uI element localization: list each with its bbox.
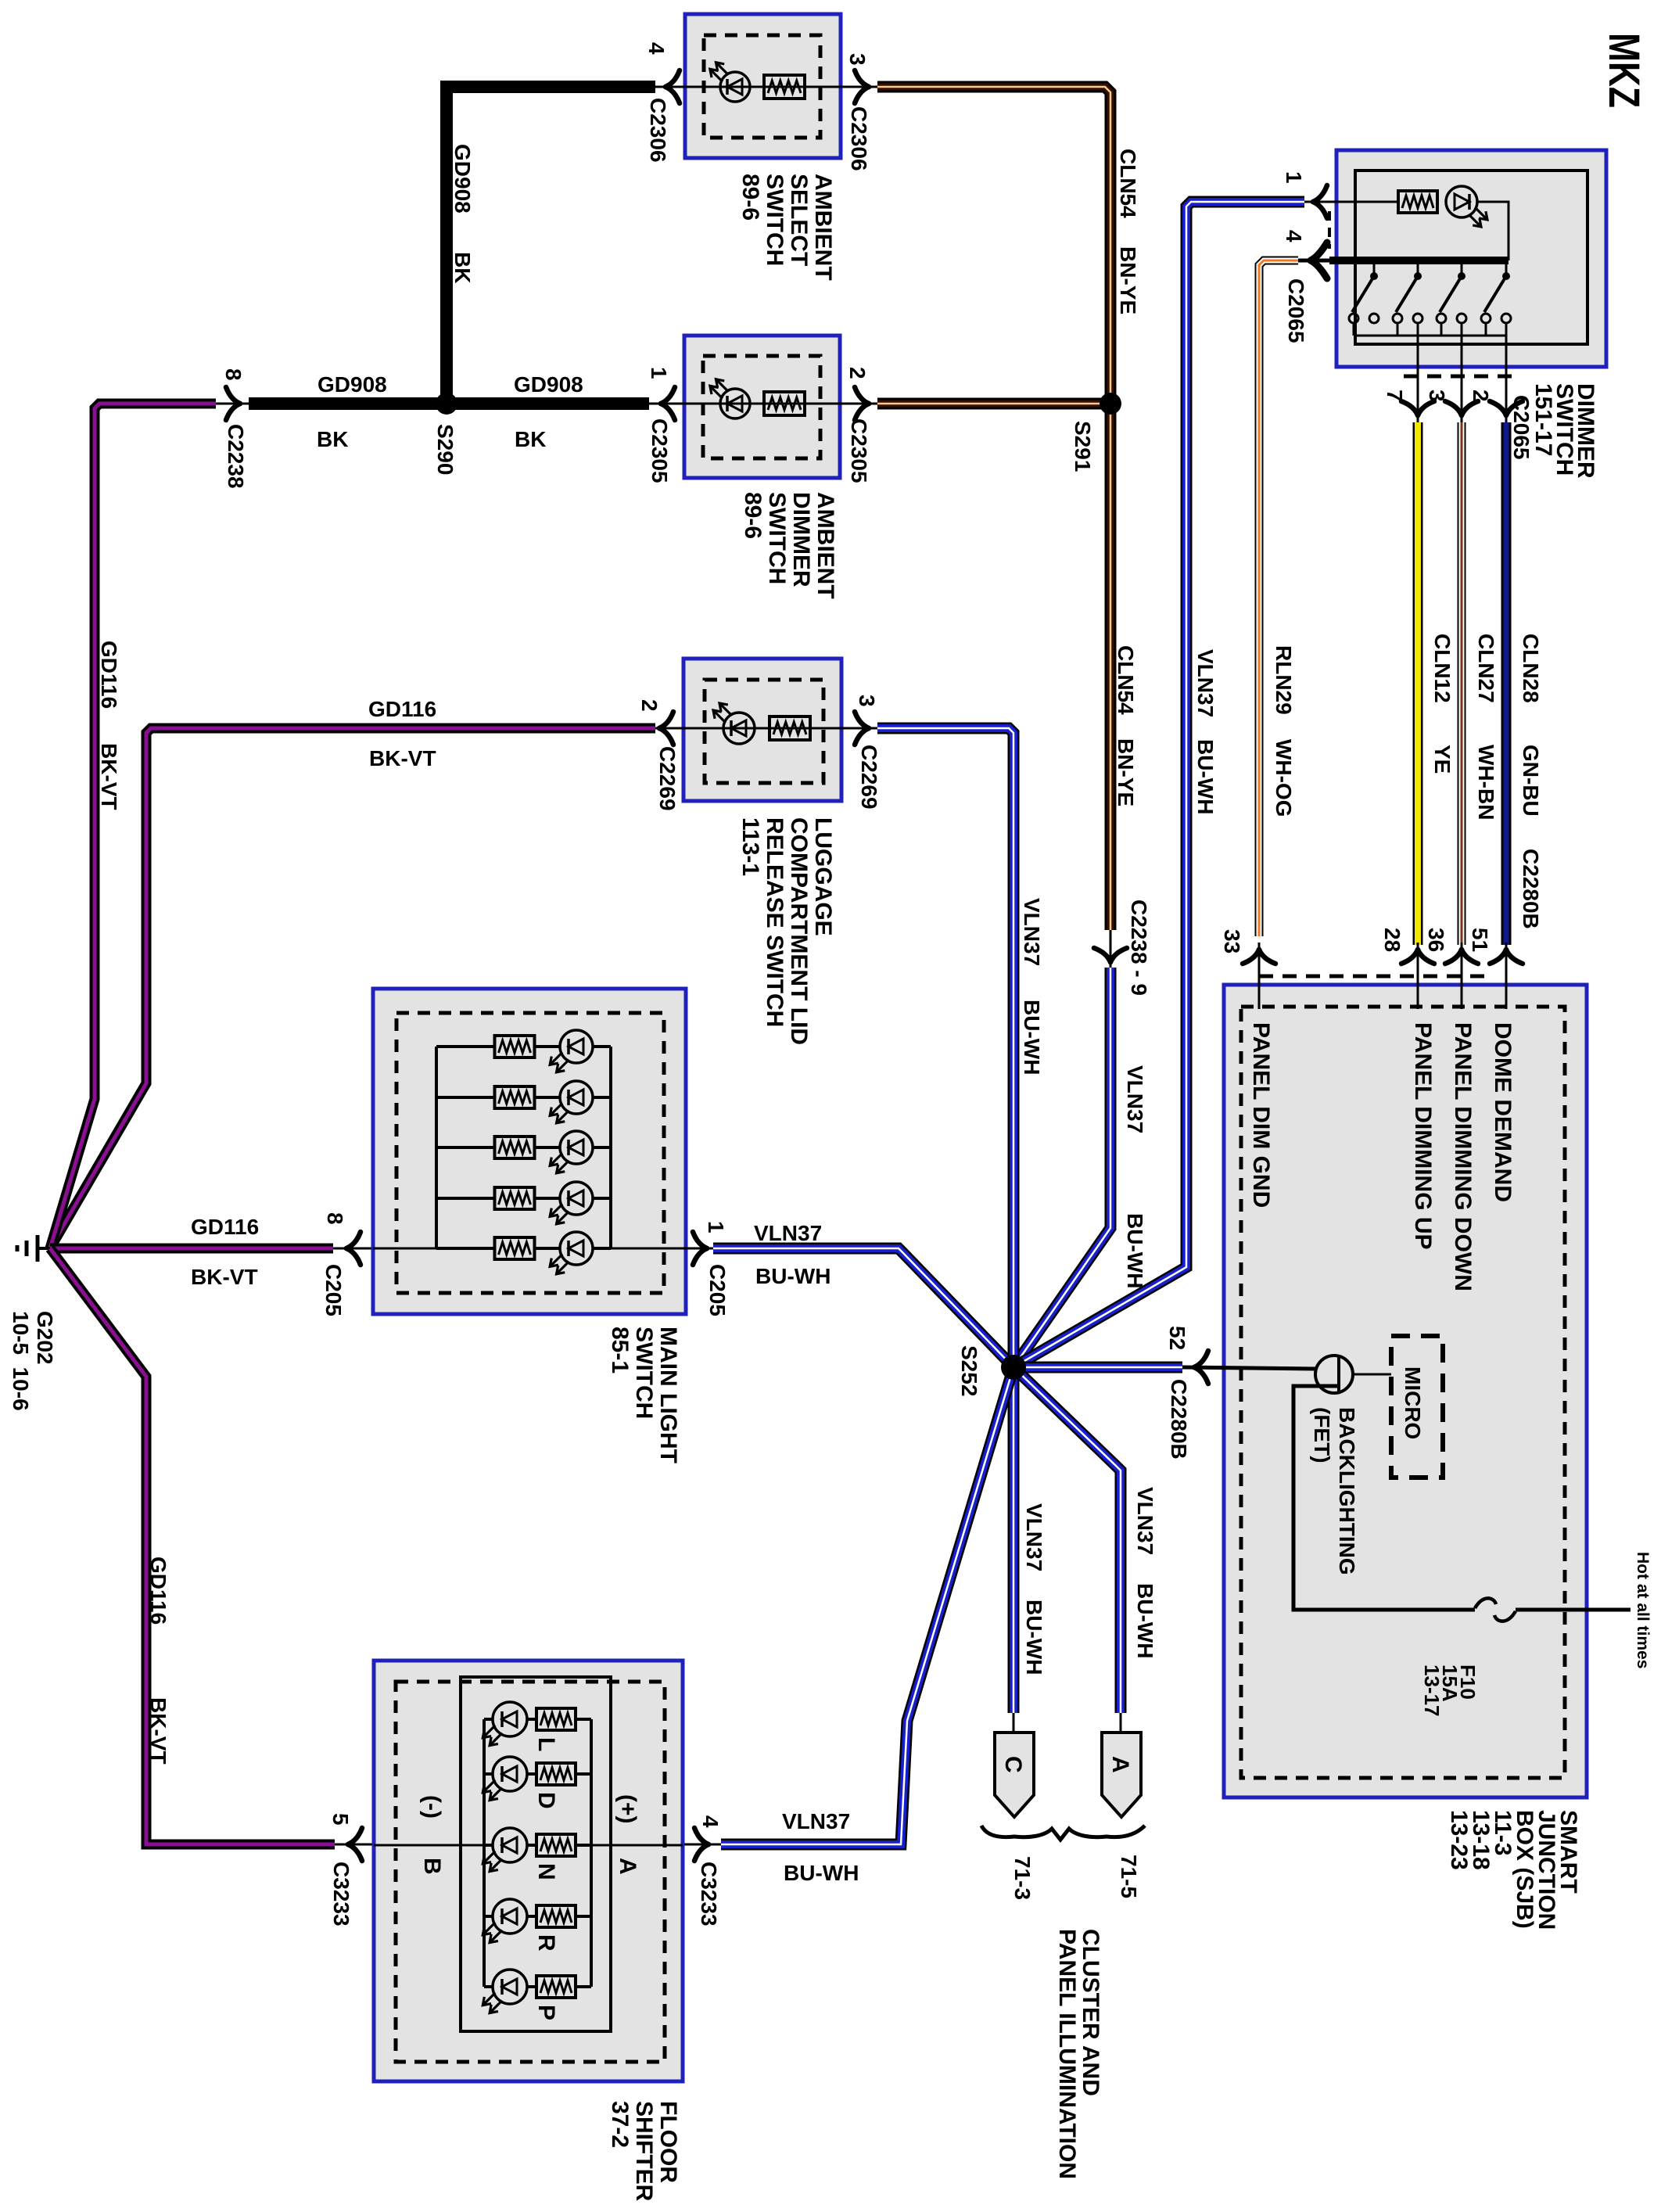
brace under flags bbox=[981, 1826, 1145, 1840]
svg-text:CLUSTER AND: CLUSTER AND bbox=[1078, 1929, 1103, 2096]
left bus bar in main light switch bbox=[435, 1047, 438, 1248]
svg-text:7: 7 bbox=[1383, 390, 1407, 402]
svg-text:RLN29: RLN29 bbox=[1272, 645, 1296, 715]
svg-text:A: A bbox=[615, 1858, 640, 1875]
wire CLN54 BN-YE from C2306 pin 3 right and down to S291 and C2238 pin 9 bbox=[877, 87, 1110, 930]
connector C2238 pin 9 in-line arrow bbox=[1094, 948, 1110, 962]
row 5 resistor and LED in main light switch bbox=[436, 1247, 494, 1250]
pin exit stubs dimmer switch pins 7 3 2 bbox=[1417, 323, 1419, 422]
svg-text:BK: BK bbox=[515, 427, 546, 451]
svg-text:4: 4 bbox=[698, 1815, 723, 1828]
svg-text:5: 5 bbox=[328, 1813, 353, 1826]
svg-text:71-3: 71-3 bbox=[1010, 1856, 1035, 1900]
svg-text:C2238: C2238 bbox=[224, 424, 248, 489]
svg-text:1: 1 bbox=[647, 367, 671, 379]
wire GD908 BK left segment S290 to C2238 pin 8 bbox=[249, 397, 649, 410]
row 2 resistor and LED in main light switch bbox=[436, 1096, 494, 1099]
svg-text:C205: C205 bbox=[705, 1264, 730, 1316]
svg-text:GN-BU: GN-BU bbox=[1519, 745, 1543, 817]
LED in luggage switch bbox=[723, 713, 755, 744]
svg-text:A: A bbox=[1107, 1756, 1133, 1773]
svg-text:BU-WH: BU-WH bbox=[1133, 1583, 1157, 1658]
connector arrow C2306 pin 4 bbox=[665, 70, 680, 87]
svg-text:BK-VT: BK-VT bbox=[146, 1697, 170, 1765]
svg-text:8: 8 bbox=[323, 1212, 347, 1225]
svg-text:C2238 - 9: C2238 - 9 bbox=[1127, 900, 1151, 996]
connector arrow C2269 pin 2 bbox=[659, 712, 673, 728]
svg-text:C: C bbox=[1000, 1756, 1026, 1773]
junction S252 bbox=[1001, 1355, 1026, 1380]
device box FLOOR SHIFTER bbox=[374, 1661, 683, 2081]
device box SMART JUNCTION BOX bbox=[1224, 985, 1587, 1797]
svg-text:MAIN LIGHT: MAIN LIGHT bbox=[655, 1327, 681, 1463]
svg-text:CLN28: CLN28 bbox=[1519, 634, 1543, 703]
svg-text:37-2: 37-2 bbox=[607, 2101, 633, 2148]
svg-text:GD116: GD116 bbox=[97, 641, 121, 709]
resistor in luggage switch bbox=[770, 716, 810, 740]
wire VLN37 BU-WH from C2269 pin 3 right then down to S252 bbox=[877, 728, 1013, 1367]
wire GD116 BK-VT from C2238 pin 8 left then down to G202 ground bbox=[50, 404, 216, 1248]
svg-text:SWITCH: SWITCH bbox=[764, 492, 790, 584]
svg-text:2: 2 bbox=[637, 699, 662, 712]
svg-text:VLN37: VLN37 bbox=[754, 1221, 822, 1245]
svg-text:BU-WH: BU-WH bbox=[1123, 1213, 1147, 1288]
svg-text:CLN27: CLN27 bbox=[1474, 634, 1498, 703]
svg-text:RELEASE SWITCH: RELEASE SWITCH bbox=[762, 817, 787, 1027]
svg-text:8: 8 bbox=[221, 368, 246, 381]
wire internal row box2 bbox=[684, 403, 840, 405]
svg-text:Hot at all times: Hot at all times bbox=[1634, 1552, 1652, 1668]
svg-text:C2269: C2269 bbox=[655, 746, 680, 811]
svg-text:P: P bbox=[533, 2005, 559, 2020]
svg-text:BU-WH: BU-WH bbox=[755, 1264, 830, 1288]
svg-text:VLN37: VLN37 bbox=[1123, 1065, 1147, 1133]
svg-text:BK-VT: BK-VT bbox=[97, 743, 121, 810]
connector arrow C2280B pin 52 bbox=[1194, 1351, 1208, 1367]
svg-text:VLN37: VLN37 bbox=[1022, 1503, 1046, 1571]
wire VLN37 BU-WH from S252 to SJB pin 52 bbox=[1013, 1362, 1182, 1374]
svg-text:PANEL DIMMING DOWN: PANEL DIMMING DOWN bbox=[1450, 1022, 1476, 1291]
wire thin stub at box1 left bbox=[655, 86, 685, 88]
svg-text:(-): (-) bbox=[419, 1795, 445, 1819]
pin 4 bus in dimmer switch bbox=[1329, 257, 1509, 264]
svg-text:WH-BN: WH-BN bbox=[1474, 745, 1498, 820]
svg-text:COMPARTMENT LID: COMPARTMENT LID bbox=[786, 817, 812, 1045]
device box DIMMER SWITCH bbox=[1336, 150, 1606, 367]
svg-text:MKZ: MKZ bbox=[1600, 33, 1649, 108]
wire VLN37 BU-WH from C2238 pin 9 down then diagonal to S252 bbox=[1013, 968, 1110, 1367]
wire GD908 BK from S290 up and right to C2306 pin 4 bbox=[447, 87, 655, 404]
dashed internal boundary of SJB bbox=[1241, 1007, 1565, 1778]
svg-text:LUGGAGE: LUGGAGE bbox=[810, 817, 836, 936]
LED in dimmer switch bbox=[1446, 186, 1477, 217]
svg-text:BU-WH: BU-WH bbox=[1022, 1600, 1046, 1675]
off-page flag A bbox=[1120, 1713, 1122, 1733]
svg-text:B: B bbox=[419, 1858, 445, 1875]
pin 1 wire row in dimmer switch bbox=[1302, 201, 1398, 203]
wire CLN54 BN-YE from C2305 pin 2 to S291 bbox=[877, 398, 1110, 410]
svg-text:BU-WH: BU-WH bbox=[1020, 1000, 1044, 1075]
svg-text:1: 1 bbox=[1282, 171, 1306, 184]
connector arrows C2065 pins 7 3 2 bbox=[1401, 401, 1418, 415]
switch contact 4 in dimmer switch bbox=[1505, 264, 1508, 274]
svg-text:VLN37: VLN37 bbox=[782, 1809, 850, 1833]
svg-text:(+): (+) bbox=[615, 1794, 640, 1824]
row D LED and resistor in floor shifter bbox=[484, 1772, 493, 1776]
svg-text:G202: G202 bbox=[33, 1311, 57, 1365]
wire VLN37 BU-WH from C2065 pin 1 down to S252 bbox=[1013, 202, 1304, 1367]
svg-text:GD908: GD908 bbox=[317, 372, 387, 397]
svg-text:2: 2 bbox=[845, 367, 870, 379]
svg-text:S290: S290 bbox=[433, 424, 457, 475]
inner solid box of dimmer switch bbox=[1355, 171, 1587, 344]
device box AMBIENT DIMMER SWITCH bbox=[684, 336, 840, 478]
dashed connector boundary inside luggage switch bbox=[705, 680, 823, 783]
svg-text:C3233: C3233 bbox=[697, 1862, 721, 1927]
bottom link line in dimmer switch bbox=[1354, 335, 1506, 337]
svg-text:113-1: 113-1 bbox=[737, 817, 763, 876]
svg-text:VLN37: VLN37 bbox=[1133, 1487, 1157, 1555]
svg-text:C2065: C2065 bbox=[1509, 395, 1534, 460]
svg-text:1: 1 bbox=[704, 1221, 728, 1233]
svg-text:CLN54: CLN54 bbox=[1116, 149, 1140, 218]
svg-text:DIMMER: DIMMER bbox=[788, 492, 814, 587]
wire internal row luggage switch bbox=[683, 727, 841, 730]
row P LED and resistor in floor shifter bbox=[484, 1985, 493, 1988]
svg-text:2: 2 bbox=[1469, 390, 1493, 402]
svg-text:(FET): (FET) bbox=[1310, 1407, 1334, 1463]
left bus floor shifter bbox=[483, 1719, 486, 1987]
svg-text:13-17: 13-17 bbox=[1420, 1664, 1444, 1717]
svg-text:10-5 10-6: 10-5 10-6 bbox=[9, 1311, 33, 1411]
fuse F10 symbol bbox=[1475, 1598, 1496, 1608]
svg-text:C2306: C2306 bbox=[646, 98, 670, 163]
svg-text:BU-WH: BU-WH bbox=[1193, 739, 1218, 814]
svg-text:C2269: C2269 bbox=[857, 745, 881, 810]
off-page flag C bbox=[1013, 1713, 1015, 1733]
svg-text:BK: BK bbox=[450, 252, 475, 283]
svg-text:SELECT: SELECT bbox=[786, 174, 812, 266]
device box MAIN LIGHT SWITCH bbox=[373, 989, 686, 1314]
connector arrow C2065 pin 4 bbox=[1311, 242, 1327, 260]
svg-text:GD908: GD908 bbox=[514, 372, 583, 397]
svg-text:DOME DEMAND: DOME DEMAND bbox=[1490, 1022, 1516, 1202]
svg-text:151-17: 151-17 bbox=[1530, 383, 1556, 456]
right bus floor shifter bbox=[590, 1719, 593, 1987]
svg-text:89-6: 89-6 bbox=[737, 174, 763, 221]
connector arrow C205 pin 8 bbox=[346, 1232, 361, 1248]
wire thin stub at box1 right bbox=[841, 86, 877, 88]
svg-text:PANEL ILLUMINATION: PANEL ILLUMINATION bbox=[1054, 1929, 1080, 2179]
ground G202 symbol bbox=[36, 1235, 40, 1262]
svg-text:GD116: GD116 bbox=[191, 1215, 259, 1239]
svg-text:BU-WH: BU-WH bbox=[784, 1861, 859, 1885]
svg-text:13-23: 13-23 bbox=[1446, 1810, 1472, 1870]
svg-text:VLN37: VLN37 bbox=[1193, 649, 1218, 717]
row L LED and resistor in floor shifter bbox=[484, 1718, 493, 1721]
svg-text:GD116: GD116 bbox=[368, 697, 436, 721]
wire GD116 BK-VT from G202 to C205 pin 8 bbox=[50, 1244, 333, 1254]
dashed connector boundary inside main light switch bbox=[396, 1013, 664, 1293]
wire internal main row box4 bbox=[373, 1248, 436, 1250]
svg-text:SWITCH: SWITCH bbox=[762, 174, 787, 266]
svg-text:4: 4 bbox=[1282, 230, 1306, 242]
resistor in ambient dimmer switch bbox=[764, 392, 805, 415]
svg-text:3: 3 bbox=[845, 53, 870, 66]
row R LED and resistor in floor shifter bbox=[484, 1915, 493, 1918]
connector arrow C205 pin 1 bbox=[693, 1232, 707, 1248]
svg-text:AMBIENT: AMBIENT bbox=[810, 174, 836, 281]
svg-text:BK-VT: BK-VT bbox=[191, 1265, 258, 1289]
svg-text:28: 28 bbox=[1380, 928, 1404, 952]
dashed MICRO box in SJB bbox=[1391, 1336, 1443, 1478]
svg-text:33: 33 bbox=[1220, 929, 1244, 953]
svg-text:C205: C205 bbox=[321, 1264, 346, 1316]
svg-text:3: 3 bbox=[855, 695, 879, 707]
wire internal main row floor shifter bbox=[374, 1844, 484, 1847]
svg-text:BK-VT: BK-VT bbox=[369, 746, 436, 770]
svg-text:VLN37: VLN37 bbox=[1020, 898, 1044, 966]
dashed connector line C2280B top bbox=[1259, 975, 1490, 979]
resistor in dimmer switch bbox=[1398, 191, 1437, 213]
connector arrow C3233 pin 5 bbox=[348, 1828, 362, 1844]
LED in ambient select switch bbox=[720, 72, 750, 102]
svg-text:D: D bbox=[533, 1792, 559, 1809]
svg-text:SWITCH: SWITCH bbox=[631, 1327, 657, 1419]
svg-text:52: 52 bbox=[1165, 1326, 1189, 1350]
wire VLN37 BU-WH from S252 down to A flag panel feed bbox=[1013, 1367, 1121, 1713]
svg-text:36: 36 bbox=[1424, 928, 1448, 952]
row 1 resistor and LED in main light switch bbox=[436, 1045, 494, 1048]
svg-text:PANEL DIM GND: PANEL DIM GND bbox=[1248, 1022, 1274, 1208]
wire VLN37 BU-WH from S252 down to C flag cluster feed bbox=[1008, 1367, 1020, 1713]
connector arrow C2305 pin 2 bbox=[855, 387, 869, 404]
wire GD116 BK-VT from C2269 pin 2 left then down to G202 ground bbox=[50, 728, 655, 1248]
svg-text:C2280B: C2280B bbox=[1167, 1379, 1191, 1460]
connector arrow C2065 pin 1 bbox=[1313, 185, 1327, 202]
svg-text:BN-YE: BN-YE bbox=[1114, 738, 1138, 806]
wire RLN29 WH-OG from C2065 pin 4 down to SJB pin 33 bbox=[1259, 260, 1298, 936]
svg-text:FLOOR: FLOOR bbox=[655, 2101, 681, 2183]
device box AMBIENT SELECT SWITCH bbox=[685, 14, 841, 158]
dashed connector boundary inside floor shifter bbox=[396, 1682, 665, 2062]
svg-text:3: 3 bbox=[1425, 390, 1449, 402]
dashed connector boundary inside ambient dimmer switch bbox=[703, 356, 820, 458]
resistor in ambient select switch bbox=[764, 75, 805, 99]
SJB top pin stubs bbox=[1258, 943, 1261, 1009]
junction S290 bbox=[436, 393, 457, 415]
junction S291 bbox=[1100, 393, 1121, 415]
svg-text:PANEL DIMMING UP: PANEL DIMMING UP bbox=[1410, 1022, 1436, 1250]
wire GD116 BK-VT from G202 down to C3233 pin 5 bbox=[50, 1248, 335, 1844]
connector arrow C3233 pin 4 bbox=[694, 1828, 709, 1844]
svg-text:R: R bbox=[533, 1934, 559, 1952]
wire CLN27 WH-BN from C2065 pin 3 to SJB pin 36 bbox=[1458, 422, 1466, 945]
svg-text:C2065: C2065 bbox=[1284, 278, 1308, 343]
row 3 resistor and LED in main light switch bbox=[436, 1146, 494, 1149]
connector arrow C2306 pin 3 bbox=[855, 70, 869, 87]
svg-text:CLN12: CLN12 bbox=[1430, 634, 1455, 703]
switch contact 2 in dimmer switch bbox=[1417, 264, 1419, 274]
svg-text:SHIFTER: SHIFTER bbox=[631, 2101, 657, 2202]
svg-text:BN-YE: BN-YE bbox=[1116, 246, 1140, 314]
svg-text:BACKLIGHTING: BACKLIGHTING bbox=[1335, 1407, 1359, 1575]
svg-text:L: L bbox=[533, 1737, 559, 1751]
device box LUGGAGE COMPARTMENT LID RELEASE SWITCH bbox=[683, 659, 841, 801]
svg-text:GD116: GD116 bbox=[146, 1557, 170, 1625]
svg-text:WH-OG: WH-OG bbox=[1272, 739, 1296, 817]
svg-text:N: N bbox=[533, 1863, 559, 1880]
backlighting FET driver circle in SJB bbox=[1315, 1356, 1353, 1393]
svg-text:GD908: GD908 bbox=[450, 144, 475, 214]
connector arrow C2269 pin 3 bbox=[855, 712, 869, 728]
dashed connector boundary inside ambient select switch bbox=[704, 35, 820, 138]
connector arrow C2305 pin 1 bbox=[661, 387, 675, 404]
svg-text:85-1: 85-1 bbox=[607, 1327, 633, 1374]
wire CLN12 YE from C2065 pin 7 to SJB pin 28 bbox=[1413, 422, 1423, 945]
svg-text:BK: BK bbox=[317, 427, 348, 451]
LED in ambient dimmer switch bbox=[720, 389, 750, 418]
dashed line between pins 1 and 4 of C2065 bbox=[1328, 211, 1331, 249]
switch contact 1 in dimmer switch bbox=[1373, 264, 1376, 274]
wire VLN37 BU-WH from C205 pin 1 to S252 bbox=[713, 1248, 1013, 1367]
inner solid box floor shifter bbox=[461, 1677, 611, 2031]
connector arrows C2280B pins 33 28 36 51 bbox=[1243, 950, 1259, 964]
wire VLN37 BU-WH from S252 down-left to C3233 pin 4 floor shifter bbox=[721, 1367, 1013, 1844]
switch contact 3 in dimmer switch bbox=[1461, 264, 1463, 274]
svg-text:89-6: 89-6 bbox=[740, 492, 766, 539]
svg-text:71-5: 71-5 bbox=[1117, 1855, 1141, 1898]
svg-text:51: 51 bbox=[1468, 928, 1492, 952]
svg-text:AMBIENT: AMBIENT bbox=[813, 492, 838, 599]
right bus bar in main light switch bbox=[609, 1047, 612, 1248]
wire FET to fuse F10 inside SJB bbox=[1293, 1386, 1475, 1610]
svg-text:S291: S291 bbox=[1071, 421, 1095, 472]
svg-text:C2280B: C2280B bbox=[1519, 849, 1543, 929]
svg-text:C2305: C2305 bbox=[847, 418, 871, 483]
svg-text:C2305: C2305 bbox=[648, 418, 672, 483]
wire internal row box1 bbox=[685, 86, 841, 88]
wire CLN28 GN-BU from C2065 pin 2 to SJB pin 51 bbox=[1501, 422, 1512, 945]
row 4 resistor and LED in main light switch bbox=[436, 1197, 494, 1200]
svg-text:S252: S252 bbox=[957, 1345, 981, 1396]
svg-text:C3233: C3233 bbox=[329, 1862, 353, 1927]
connector arrow C2238 pin 8 bbox=[226, 387, 240, 404]
svg-text:4: 4 bbox=[644, 42, 669, 55]
svg-text:C2306: C2306 bbox=[847, 106, 871, 171]
svg-text:MICRO: MICRO bbox=[1401, 1366, 1425, 1439]
svg-text:YE: YE bbox=[1430, 745, 1455, 774]
dashed connector line C2065 bottom bbox=[1404, 375, 1513, 379]
svg-text:CLN54: CLN54 bbox=[1114, 645, 1138, 715]
row N LED and resistor in floor shifter bbox=[484, 1844, 493, 1847]
